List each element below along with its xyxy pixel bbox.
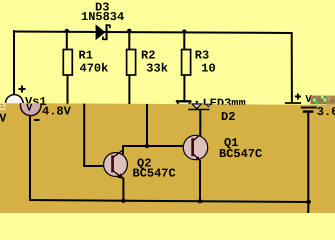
wire R2 top lead	[128, 32, 130, 51]
node R3 top junction	[182, 29, 186, 33]
transistor Q2 BC547C	[104, 150, 128, 179]
led arrow mark	[196, 100, 199, 104]
plus sign of battery	[295, 94, 301, 100]
voltage source Vs1 shifted copy (pink circle with V, clipped)	[20, 95, 41, 116]
svg-text:D2: D2	[221, 110, 235, 124]
wire Q2 base vertical	[83, 104, 85, 167]
battery V1 upper plates (pale zone)	[285, 102, 301, 104]
svg-text:1N5834: 1N5834	[81, 10, 124, 24]
battery V1 lower plates (gold zone)	[301, 108, 317, 112]
led D2 upper white triangle (clipped at band)	[176, 101, 191, 110]
node Q1 emitter on bottom rail	[198, 199, 202, 203]
node R1 top junction	[65, 29, 69, 33]
svg-text:BC547C: BC547C	[219, 147, 262, 161]
node Q2 emitter on bottom rail	[121, 199, 125, 203]
wire R3 top lead	[183, 32, 185, 50]
wire R3 bottom lead	[183, 75, 185, 101]
svg-text:R3: R3	[195, 48, 209, 62]
wire collector junction horizontal to Q1 base	[122, 145, 184, 147]
resistor R1	[63, 50, 72, 76]
svg-text:V: V	[0, 112, 7, 126]
svg-text:3.6V: 3.6V	[317, 105, 335, 119]
svg-text:V: V	[26, 103, 32, 114]
voltage source Vs1 (upper white circle, clipped)	[6, 95, 24, 113]
wire top rail	[13, 32, 292, 34]
wire R1 bottom lead	[67, 75, 69, 104]
diode D3 (Schottky 1N5834)	[96, 24, 110, 40]
wire R2 bottom lead	[128, 75, 130, 104]
wire right vertical from top rail to battery V1	[291, 32, 293, 103]
node R2 top junction	[127, 29, 131, 33]
wire Q2 collector up	[122, 146, 124, 155]
wire left vertical from top rail to Vs1	[13, 30, 15, 95]
node Q2 collector / R2 junction	[145, 144, 149, 148]
wire R1 top lead	[66, 31, 68, 50]
wire bottom rail	[29, 200, 309, 202]
wire Q1 emitter down	[199, 160, 201, 201]
svg-text:BC547C: BC547C	[133, 166, 176, 180]
svg-text:R2: R2	[141, 48, 155, 62]
svg-text:4.8V: 4.8V	[42, 104, 72, 118]
left edge partial icon	[0, 102, 6, 109]
wire from Vs1 down to bottom rail	[29, 116, 31, 201]
label LED3mm	[203, 97, 246, 111]
node battery bottom rail junction	[306, 200, 311, 205]
svg-text:R1: R1	[79, 48, 93, 62]
artifact green block	[311, 96, 335, 105]
minus sign of Vs1	[34, 119, 40, 121]
svg-text:470k: 470k	[80, 61, 109, 75]
wire junction vertical up to band edge	[146, 104, 148, 146]
transistor Q1 BC547C	[183, 135, 207, 161]
wire battery down to bottom rail and below	[307, 113, 309, 213]
plus sign of Vs1	[19, 86, 26, 93]
resistor R2	[127, 50, 136, 76]
resistor R3	[182, 50, 191, 76]
svg-text:33k: 33k	[146, 61, 168, 75]
wire Q2 base horizontal	[83, 165, 105, 167]
wire Q2 emitter down	[122, 178, 124, 201]
svg-text:10: 10	[201, 61, 215, 75]
wire led to Q1 collector	[199, 110, 201, 136]
background lower gold band	[0, 103, 335, 213]
background upper pale yellow	[0, 0, 335, 120]
led D2 (pink, lower band)	[188, 104, 210, 110]
